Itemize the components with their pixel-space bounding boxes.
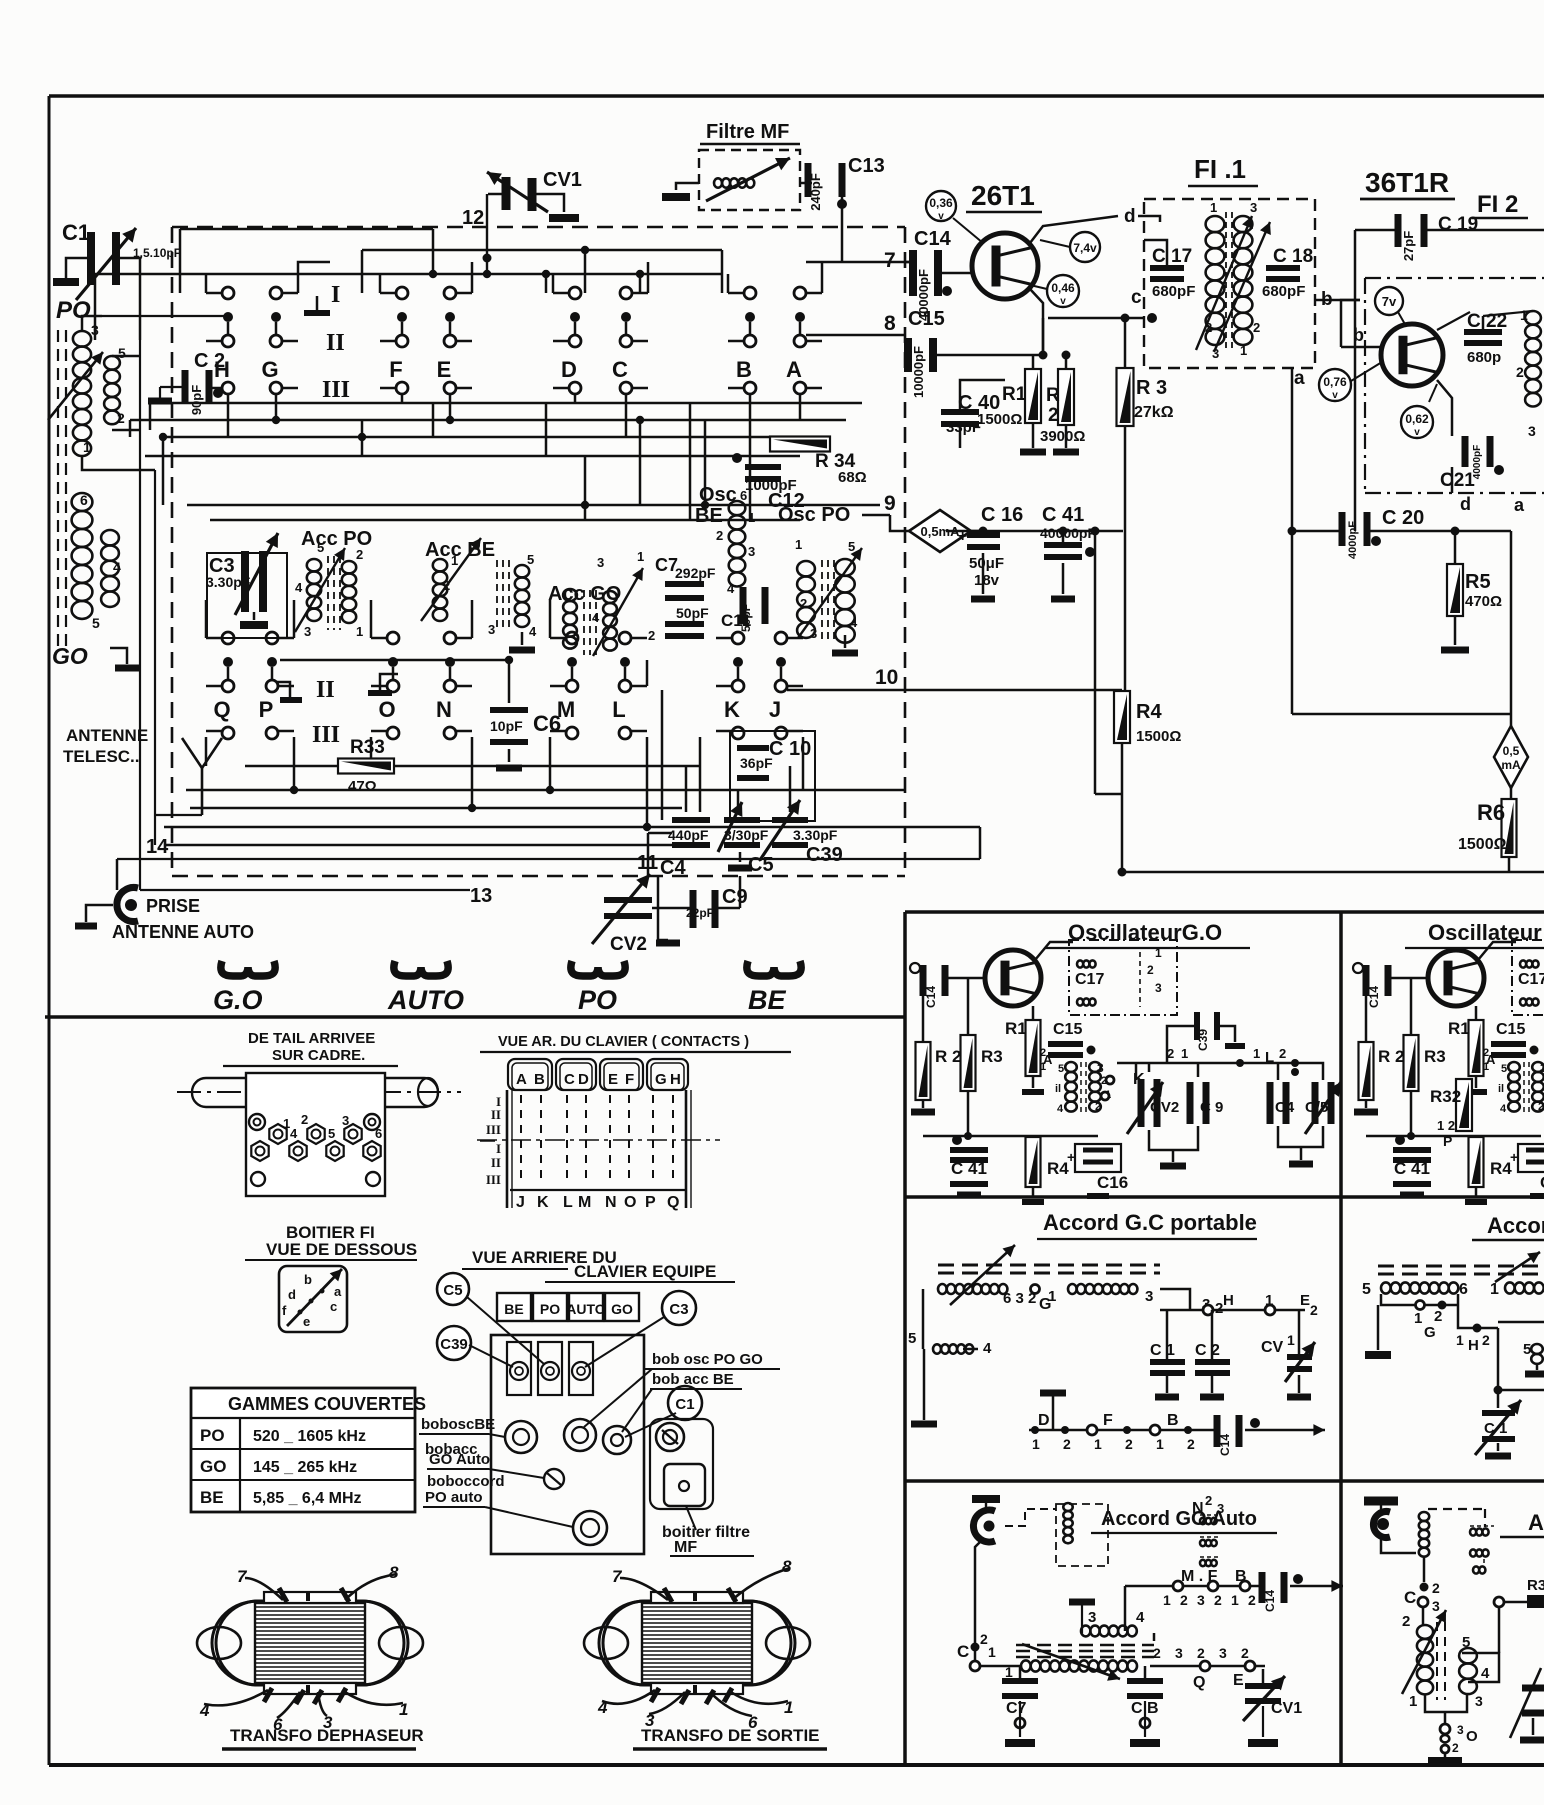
svg-text:7: 7: [612, 1567, 623, 1586]
svg-text:d: d: [1460, 494, 1471, 514]
svg-text:5: 5: [328, 1126, 335, 1141]
svg-text:2: 2: [1310, 1302, 1318, 1318]
svg-text:33pF: 33pF: [946, 419, 981, 436]
svg-text:A: A: [786, 357, 802, 382]
svg-text:2: 2: [1434, 1308, 1442, 1325]
svg-text:R 2: R 2: [935, 1047, 961, 1066]
svg-text:PO: PO: [56, 297, 91, 324]
svg-text:III: III: [312, 722, 340, 748]
svg-text:1: 1: [1490, 1281, 1499, 1298]
svg-text:7: 7: [884, 249, 896, 272]
svg-text:1: 1: [83, 439, 91, 455]
svg-text:4: 4: [295, 580, 303, 595]
svg-text:1: 1: [795, 537, 802, 552]
svg-text:3: 3: [1197, 1592, 1205, 1608]
svg-text:H: H: [1468, 1337, 1479, 1354]
svg-text:D: D: [561, 357, 577, 382]
svg-text:I: I: [331, 282, 340, 308]
svg-text:2: 2: [648, 628, 655, 643]
svg-text:8: 8: [884, 312, 896, 335]
svg-text:BE: BE: [748, 985, 786, 1015]
svg-text:C 41: C 41: [1042, 504, 1084, 526]
svg-text:3: 3: [1250, 200, 1257, 215]
svg-text:145 _ 265 kHz: 145 _ 265 kHz: [253, 1459, 357, 1476]
svg-text:3: 3: [1219, 1645, 1227, 1661]
svg-text:3: 3: [1175, 1645, 1183, 1661]
svg-text:1: 1: [1094, 1436, 1102, 1452]
svg-text:C14: C14: [914, 228, 952, 250]
svg-text:C4: C4: [1275, 1099, 1295, 1116]
svg-text:GO Auto: GO Auto: [429, 1451, 490, 1468]
svg-text:3: 3: [1540, 1061, 1544, 1075]
svg-text:Accor: Accor: [1487, 1213, 1544, 1238]
svg-text:470Ω: 470Ω: [1465, 593, 1502, 610]
svg-text:1: 1: [1048, 1288, 1056, 1305]
svg-text:C9: C9: [722, 886, 748, 908]
svg-text:2: 2: [1197, 1645, 1205, 1661]
svg-text:SUR CADRE.: SUR CADRE.: [272, 1047, 365, 1064]
svg-text:F: F: [389, 357, 402, 382]
svg-text:1: 1: [1040, 1061, 1046, 1073]
svg-text:c: c: [330, 1299, 337, 1314]
svg-text:B: B: [1167, 1412, 1179, 1429]
svg-text:2: 2: [1214, 1592, 1222, 1608]
svg-text:N: N: [605, 1194, 617, 1211]
svg-text:v: v: [1060, 296, 1066, 307]
svg-text:3: 3: [304, 624, 311, 639]
svg-text:C4: C4: [660, 857, 686, 879]
svg-text:ANTENNE AUTO: ANTENNE AUTO: [112, 922, 254, 942]
svg-text:bob acc BE: bob acc BE: [652, 1371, 734, 1388]
svg-text:A: A: [516, 1071, 527, 1088]
svg-text:bob osc PO GO: bob osc PO GO: [652, 1351, 763, 1368]
svg-text:O: O: [624, 1194, 636, 1211]
svg-text:5: 5: [527, 552, 534, 567]
svg-text:III: III: [486, 1122, 501, 1137]
svg-text:5: 5: [1501, 1063, 1507, 1075]
svg-text:C 16: C 16: [981, 504, 1023, 526]
svg-text:II: II: [491, 1107, 501, 1122]
svg-text:C15: C15: [1053, 1021, 1082, 1038]
svg-text:C5: C5: [443, 1282, 462, 1299]
svg-text:1: 1: [988, 1644, 996, 1660]
svg-text:2: 2: [1040, 1047, 1046, 1059]
svg-text:TRANSFO DEPHASEUR: TRANSFO DEPHASEUR: [230, 1726, 424, 1745]
svg-text:3/30pF: 3/30pF: [724, 827, 769, 843]
svg-text:40000pF: 40000pF: [1040, 525, 1096, 541]
svg-text:7v: 7v: [1382, 294, 1397, 309]
svg-text:d: d: [288, 1287, 296, 1302]
svg-text:PO: PO: [578, 985, 617, 1015]
svg-text:10pF: 10pF: [490, 718, 523, 734]
svg-text:R32: R32: [1430, 1087, 1461, 1106]
svg-text:1500Ω: 1500Ω: [1136, 728, 1181, 745]
svg-text:1500Ω: 1500Ω: [977, 411, 1022, 428]
svg-text:1: 1: [1155, 946, 1162, 960]
svg-text:II: II: [316, 677, 335, 703]
svg-text:7: 7: [237, 1567, 248, 1586]
svg-text:1: 1: [1287, 1332, 1295, 1348]
svg-text:1: 1: [1210, 200, 1217, 215]
svg-text:Q: Q: [1193, 1674, 1205, 1691]
svg-text:1: 1: [1156, 1436, 1164, 1452]
svg-text:a: a: [1294, 368, 1305, 389]
svg-text:E: E: [608, 1071, 618, 1088]
svg-text:3: 3: [748, 544, 755, 559]
svg-text:A: A: [1528, 1510, 1544, 1535]
svg-text:0,76: 0,76: [1323, 375, 1347, 389]
svg-text:R4: R4: [1490, 1159, 1512, 1178]
svg-text:3: 3: [1457, 1723, 1464, 1737]
svg-text:ANTENNE: ANTENNE: [66, 726, 148, 745]
svg-text:6: 6: [375, 1126, 382, 1141]
svg-text:Acc BE: Acc BE: [425, 539, 495, 561]
svg-text:2: 2: [1538, 1101, 1544, 1113]
svg-text:CLAVIER EQUIPE: CLAVIER EQUIPE: [574, 1262, 716, 1281]
svg-text:1: 1: [1520, 307, 1528, 323]
svg-text:v: v: [1332, 390, 1338, 401]
svg-text:C/5: C/5: [1305, 1099, 1328, 1116]
svg-text:3: 3: [1145, 1288, 1153, 1305]
svg-text:Oscillateur: Oscillateur: [1428, 920, 1542, 945]
svg-text:c: c: [1131, 287, 1142, 308]
svg-text:2: 2: [117, 410, 125, 426]
svg-text:4: 4: [290, 1126, 298, 1141]
svg-text:1: 1: [637, 549, 644, 564]
svg-text:4: 4: [592, 610, 600, 625]
svg-text:C21: C21: [1440, 470, 1475, 491]
svg-text:3900Ω: 3900Ω: [1040, 428, 1085, 445]
svg-text:9: 9: [884, 492, 896, 515]
svg-text:mA: mA: [1501, 758, 1521, 772]
svg-text:C13: C13: [848, 155, 885, 177]
svg-text:C: C: [564, 1071, 575, 1088]
svg-text:D: D: [578, 1071, 589, 1088]
svg-text:2: 2: [1452, 1741, 1459, 1755]
svg-text:3: 3: [1088, 1609, 1096, 1626]
svg-text:R1: R1: [1002, 384, 1027, 405]
svg-text:26T1: 26T1: [971, 180, 1035, 211]
svg-text:J: J: [516, 1194, 525, 1211]
svg-text:2: 2: [1248, 1592, 1256, 1608]
svg-text:2: 2: [1483, 1047, 1489, 1059]
svg-text:GAMMES COUVERTES: GAMMES COUVERTES: [228, 1394, 426, 1414]
svg-text:2: 2: [1482, 1332, 1490, 1348]
svg-text:5: 5: [848, 539, 855, 554]
svg-text:C 2: C 2: [1195, 1342, 1220, 1359]
svg-text:4: 4: [1057, 1103, 1064, 1115]
svg-text:BE: BE: [695, 505, 723, 527]
svg-text:C39: C39: [806, 844, 843, 866]
svg-text:C 1: C 1: [1484, 1420, 1507, 1437]
svg-text:4: 4: [1136, 1609, 1145, 1626]
svg-text:C 18: C 18: [1273, 246, 1313, 267]
svg-text:TRANSFO DE SORTIE: TRANSFO DE SORTIE: [641, 1726, 820, 1745]
svg-text:B: B: [534, 1071, 545, 1088]
svg-text:boboscBE: boboscBE: [421, 1416, 495, 1433]
svg-text:G: G: [1424, 1324, 1436, 1341]
svg-text:50μF: 50μF: [969, 555, 1004, 572]
svg-text:e: e: [303, 1314, 310, 1329]
svg-text:2: 2: [1048, 405, 1059, 426]
svg-text:R4: R4: [1136, 701, 1162, 723]
svg-text:C17: C17: [1518, 971, 1544, 988]
svg-text:C39: C39: [440, 1336, 468, 1353]
svg-text:VUE DE DESSOUS: VUE DE DESSOUS: [266, 1240, 417, 1259]
svg-text:3: 3: [342, 1113, 349, 1128]
svg-text:3.30pF: 3.30pF: [793, 827, 838, 843]
svg-text:il: il: [1055, 1083, 1061, 1095]
svg-text:E: E: [1300, 1292, 1310, 1309]
svg-text:4000pF: 4000pF: [1347, 521, 1359, 559]
svg-text:L: L: [612, 697, 625, 722]
svg-text:d: d: [1124, 206, 1136, 227]
svg-text:E: E: [1233, 1672, 1244, 1689]
svg-text:1: 1: [1005, 1664, 1013, 1680]
svg-text:v: v: [1414, 427, 1420, 438]
svg-text:3: 3: [1475, 1693, 1483, 1709]
svg-text:50pF: 50pF: [676, 605, 709, 621]
svg-text:5,85 _ 6,4 MHz: 5,85 _ 6,4 MHz: [253, 1490, 362, 1507]
svg-text:b: b: [1321, 289, 1333, 310]
svg-text:5: 5: [1362, 1281, 1371, 1298]
svg-text:+: +: [1067, 1149, 1075, 1165]
svg-text:TELESC..: TELESC..: [63, 747, 140, 766]
svg-text:Filtre MF: Filtre MF: [706, 121, 789, 143]
svg-text:1500Ω: 1500Ω: [1458, 836, 1507, 853]
svg-text:Osc PO: Osc PO: [778, 504, 850, 526]
svg-text:PO: PO: [540, 1301, 560, 1317]
svg-text:2: 2: [1095, 1101, 1101, 1113]
svg-text:680p: 680p: [1467, 349, 1501, 366]
svg-text:C14: C14: [1367, 986, 1381, 1008]
svg-text:Accord GO Auto: Accord GO Auto: [1101, 1508, 1257, 1530]
svg-text:C7: C7: [1006, 1700, 1027, 1717]
svg-text:C16: C16: [1097, 1173, 1128, 1192]
svg-text:2: 2: [1432, 1580, 1440, 1596]
svg-text:E: E: [437, 357, 452, 382]
svg-text:K: K: [537, 1194, 549, 1211]
svg-text:C 19: C 19: [1438, 214, 1478, 235]
svg-text:C1: C1: [675, 1396, 694, 1413]
svg-text:R: R: [1046, 385, 1060, 406]
svg-text:B: B: [736, 357, 752, 382]
svg-text:2: 2: [1402, 1613, 1410, 1630]
svg-text:R 2: R 2: [1378, 1047, 1404, 1066]
svg-text:DE TAIL ARRIVEE: DE TAIL ARRIVEE: [248, 1030, 375, 1047]
svg-text:O: O: [378, 697, 395, 722]
svg-text:5: 5: [92, 615, 100, 631]
svg-text:2: 2: [1205, 320, 1212, 335]
svg-text:CV1: CV1: [1271, 1700, 1302, 1717]
svg-text:1: 1: [1240, 343, 1247, 358]
svg-text:12: 12: [462, 207, 484, 229]
svg-text:G.O: G.O: [213, 985, 263, 1015]
svg-text:BE: BE: [200, 1488, 224, 1507]
svg-text:G: G: [655, 1071, 667, 1088]
svg-text:R33: R33: [350, 737, 385, 758]
svg-text:b: b: [304, 1272, 312, 1287]
svg-text:J: J: [769, 697, 781, 722]
svg-text:3: 3: [597, 555, 604, 570]
svg-text:P: P: [645, 1194, 656, 1211]
svg-text:27pF: 27pF: [1401, 231, 1416, 261]
svg-text:1: 1: [1163, 1592, 1171, 1608]
svg-text:a: a: [334, 1284, 342, 1299]
svg-text:P: P: [259, 697, 274, 722]
svg-text:5: 5: [908, 1330, 916, 1347]
svg-text:C: C: [612, 357, 628, 382]
svg-text:8: 8: [782, 1557, 792, 1576]
svg-text:1: 1: [451, 553, 458, 568]
svg-text:3: 3: [488, 622, 495, 637]
svg-text:C16: C16: [1540, 1173, 1544, 1192]
svg-text:a: a: [1514, 495, 1525, 515]
svg-text:II: II: [326, 330, 345, 356]
svg-text:C11: C11: [721, 611, 751, 630]
svg-text:R 3: R 3: [1136, 377, 1167, 399]
svg-text:440pF: 440pF: [668, 827, 709, 843]
svg-text:14: 14: [146, 836, 169, 858]
svg-text:2: 2: [1516, 364, 1524, 380]
svg-text:4: 4: [1500, 1103, 1507, 1115]
svg-text:F: F: [1103, 1412, 1113, 1429]
svg-text:R3: R3: [1424, 1047, 1446, 1066]
svg-text:3: 3: [1212, 346, 1219, 361]
svg-text:1 2: 1 2: [1437, 1118, 1455, 1133]
svg-text:R5: R5: [1465, 571, 1491, 593]
svg-text:3: 3: [1097, 1061, 1104, 1075]
svg-text:2: 2: [1180, 1592, 1188, 1608]
svg-text:Accord G.C portable: Accord G.C portable: [1043, 1210, 1257, 1235]
svg-text:6: 6: [1459, 1281, 1468, 1298]
svg-text:2: 2: [1147, 963, 1154, 977]
svg-text:III: III: [486, 1172, 501, 1187]
svg-text:MF: MF: [674, 1539, 697, 1556]
svg-text:5: 5: [1058, 1063, 1064, 1075]
svg-text:C 17: C 17: [1152, 246, 1192, 267]
svg-text:R6: R6: [1477, 800, 1505, 825]
svg-text:7,4v: 7,4v: [1073, 241, 1097, 255]
svg-text:I: I: [496, 1141, 501, 1156]
svg-text:R4: R4: [1047, 1159, 1069, 1178]
svg-text:1: 1: [1181, 1046, 1188, 1061]
svg-text:AUTO: AUTO: [566, 1301, 606, 1317]
svg-text:F: F: [625, 1071, 634, 1088]
svg-text:2: 2: [301, 1112, 308, 1127]
svg-text:2: 2: [356, 547, 363, 562]
svg-text:2: 2: [443, 578, 450, 593]
svg-text:3: 3: [1217, 1501, 1224, 1516]
svg-text:1: 1: [1456, 1332, 1464, 1348]
svg-text:OscillateurG.O: OscillateurG.O: [1068, 920, 1222, 945]
svg-text:C14: C14: [1263, 1590, 1277, 1612]
svg-text:36T1R: 36T1R: [1365, 167, 1449, 198]
svg-text:4: 4: [850, 615, 858, 630]
svg-text:0,46: 0,46: [1051, 281, 1075, 295]
svg-text:3: 3: [810, 626, 817, 641]
svg-text:3: 3: [1155, 981, 1162, 995]
svg-text:CV2: CV2: [610, 934, 647, 955]
svg-text:boboccord: boboccord: [427, 1473, 505, 1490]
svg-text:6: 6: [80, 492, 88, 508]
svg-text:5: 5: [118, 345, 126, 361]
svg-text:C 20: C 20: [1382, 507, 1424, 529]
svg-text:PO: PO: [200, 1426, 225, 1445]
svg-text:0,36: 0,36: [929, 196, 953, 210]
svg-text:C15: C15: [1496, 1021, 1525, 1038]
svg-text:CV2: CV2: [1150, 1099, 1179, 1116]
svg-text:10000pF: 10000pF: [911, 346, 926, 398]
svg-text:CV1: CV1: [543, 169, 582, 191]
svg-text:f: f: [282, 1303, 287, 1318]
svg-text:b: b: [1353, 325, 1364, 345]
svg-text:C39: C39: [1196, 1029, 1210, 1051]
svg-text:C6: C6: [533, 711, 561, 736]
svg-text:4: 4: [1481, 1665, 1490, 1682]
svg-text:GO: GO: [200, 1457, 226, 1476]
svg-text:2: 2: [1253, 320, 1260, 335]
svg-text:1: 1: [356, 624, 363, 639]
svg-text:C 1: C 1: [1150, 1342, 1175, 1359]
svg-text:C: C: [957, 1642, 969, 1661]
svg-text:C: C: [1404, 1588, 1416, 1607]
svg-text:8: 8: [389, 1563, 399, 1582]
svg-text:C 2: C 2: [194, 350, 225, 372]
svg-text:C15: C15: [908, 308, 945, 330]
svg-text:K: K: [724, 697, 740, 722]
svg-text:R3: R3: [1527, 1577, 1544, 1594]
svg-text:II: II: [491, 1155, 501, 1170]
svg-text:GO: GO: [611, 1301, 633, 1317]
svg-text:0,62: 0,62: [1405, 412, 1429, 426]
svg-text:1: 1: [1231, 1592, 1239, 1608]
svg-text:2: 2: [800, 596, 807, 611]
svg-text:GO: GO: [52, 643, 88, 669]
svg-text:4: 4: [727, 581, 735, 596]
svg-text:13: 13: [470, 885, 492, 907]
svg-text:FI .1: FI .1: [1194, 154, 1246, 184]
svg-text:C1: C1: [62, 220, 90, 245]
svg-text:2: 2: [1279, 1046, 1286, 1061]
svg-text:R3: R3: [981, 1047, 1003, 1066]
svg-text:C3: C3: [669, 1301, 688, 1318]
svg-text:C 10: C 10: [769, 738, 811, 760]
svg-text:FI 2: FI 2: [1477, 191, 1518, 218]
svg-text:Q: Q: [213, 697, 230, 722]
svg-text:N: N: [436, 697, 452, 722]
svg-text:2: 2: [1063, 1436, 1071, 1452]
svg-text:3: 3: [1432, 1598, 1440, 1614]
svg-text:2: 2: [1241, 1645, 1249, 1661]
svg-text:90pF: 90pF: [189, 385, 204, 415]
svg-text:2: 2: [1125, 1436, 1133, 1452]
svg-text:1: 1: [748, 510, 755, 525]
svg-text:R1: R1: [1005, 1019, 1027, 1038]
svg-text:520 _ 1605 kHz: 520 _ 1605 kHz: [253, 1428, 366, 1445]
svg-text:2: 2: [980, 1631, 988, 1647]
svg-text:VUE AR. DU CLAVIER ( CONTA: VUE AR. DU CLAVIER ( CONTACTS ): [498, 1034, 749, 1050]
svg-text:27kΩ: 27kΩ: [1134, 404, 1174, 421]
svg-text:III: III: [322, 377, 350, 403]
svg-text:il: il: [1498, 1083, 1504, 1095]
svg-text:240pF: 240pF: [808, 173, 823, 211]
svg-text:CV: CV: [1261, 1339, 1284, 1356]
svg-text:PRISE: PRISE: [146, 896, 200, 916]
svg-text:680pF: 680pF: [1262, 283, 1305, 300]
svg-text:680pF: 680pF: [1152, 283, 1195, 300]
svg-text:2: 2: [716, 528, 723, 543]
